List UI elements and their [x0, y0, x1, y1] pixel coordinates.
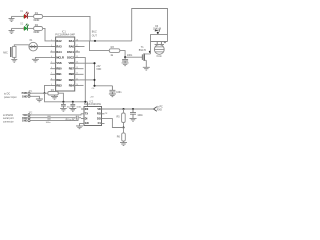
transistor T1 labels [139, 46, 147, 52]
svg-text:RB3: RB3 [56, 83, 62, 87]
wire IC1 pin4 to ground [35, 58, 50, 60]
ground GND1 (LED1) [9, 16, 15, 21]
diode D3 [155, 29, 160, 34]
wire IC1 pin12 stub [80, 73, 84, 75]
junction pin11 [93, 79, 95, 81]
svg-text:VDD: VDD [69, 61, 75, 65]
wire SV2 txd to IC2 [30, 114, 81, 115]
net label pin14 [96, 65, 101, 71]
wire SV1 power to node [30, 92, 44, 94]
svg-text:connector: connector [3, 120, 14, 123]
svg-text:VSS: VSS [56, 61, 61, 65]
capacitor C4 on gate [122, 57, 128, 63]
wire IC1 pin9 down [45, 85, 51, 93]
IC1 right pin names [67, 39, 75, 87]
wire R6 to main rail [58, 93, 63, 102]
svg-text:6: 6 [51, 67, 52, 69]
svg-text:GND: GND [22, 95, 28, 98]
svg-text:100n: 100n [127, 54, 133, 57]
svg-text:11: 11 [76, 78, 78, 80]
svg-text:GND: GND [22, 120, 28, 123]
IC2 right pins [102, 109, 105, 123]
ground GND11 (R8) [120, 143, 127, 146]
ground GND12 (C2) [130, 118, 137, 121]
wire IC1 pin14 node [80, 63, 113, 86]
svg-text:GN: GN [85, 122, 89, 125]
svg-text:3: 3 [51, 50, 52, 52]
junction R7/R8 [122, 126, 124, 128]
svg-text:RX: RX [85, 108, 89, 111]
microphone MIC1 [11, 46, 16, 57]
IC2 left pins [81, 109, 84, 123]
connector SV2 pin circles [28, 114, 30, 122]
wire IC1 pin18 right net [80, 40, 132, 42]
junction rail cap [62, 101, 64, 103]
wire C3 to C5 [51, 117, 76, 119]
connector SV2 pin names [22, 114, 28, 123]
capacitor C2 [130, 109, 136, 118]
junction rail cap2 [72, 101, 74, 103]
wire LED2 to R2 [27, 27, 33, 29]
junction drain [149, 51, 151, 53]
svg-text:RA4: RA4 [56, 50, 62, 54]
svg-text:100n: 100n [116, 92, 122, 94]
svg-text:VDD: VDD [96, 68, 101, 71]
wire SV1 gnd down [30, 96, 39, 99]
svg-text:5: 5 [51, 62, 52, 64]
svg-text:RB2: RB2 [56, 78, 62, 82]
capacitor C2b [70, 102, 75, 109]
LED D1 (red) [24, 12, 29, 19]
transistor T1 (n-mosfet) [142, 53, 150, 61]
svg-text:DO: DO [97, 117, 101, 120]
svg-text:7: 7 [51, 73, 52, 75]
svg-text:16: 16 [76, 50, 78, 52]
net flag TXD [154, 107, 157, 111]
capacitor C3 (series) [48, 116, 50, 120]
wire SV2 gnd to IC2 [30, 119, 78, 121]
svg-text:OSC1: OSC1 [67, 50, 75, 54]
IC1 right pins [75, 41, 80, 86]
diode D3 labels [153, 26, 162, 31]
svg-text:RB5: RB5 [69, 78, 75, 82]
ground GND5 (source) [143, 67, 150, 70]
wire top VCC run [132, 9, 168, 42]
svg-text:DI: DI [85, 117, 88, 120]
capacitor C6 [109, 86, 115, 94]
svg-text:330R: 330R [33, 18, 39, 22]
svg-text:RB1: RB1 [56, 72, 62, 76]
resistor R6 [48, 92, 59, 96]
connector SV1 texts [4, 93, 17, 99]
svg-text:RXD: RXD [157, 108, 162, 111]
junction out R4 [122, 108, 124, 110]
svg-text:2: 2 [51, 45, 52, 47]
wire IC1 pin17 stub [80, 46, 85, 48]
resistor R7 (vertical) [122, 113, 126, 123]
wire node down to gate line [90, 41, 110, 51]
resistor R3 [109, 46, 120, 57]
svg-text:100n: 100n [137, 114, 143, 117]
net flag texts [157, 105, 163, 111]
svg-text:MAX232CPA: MAX232CPA [84, 103, 101, 106]
svg-text:4: 4 [51, 56, 52, 58]
junction node pin18/LED1 [94, 40, 96, 42]
ground GND14 (C2b) [69, 108, 76, 111]
svg-text:RA3: RA3 [56, 44, 62, 48]
resistor R8 (vertical) [122, 133, 126, 141]
ground GND9 (C1) [60, 108, 67, 111]
wire MIC to coupling [14, 45, 29, 47]
svg-text:9: 9 [51, 84, 52, 86]
wire R3 to gate [120, 51, 142, 58]
wire SV2 row2 to C3 [30, 117, 47, 119]
svg-text:330R: 330R [33, 30, 39, 34]
svg-text:OSC2: OSC2 [67, 56, 75, 60]
resistor R1 [33, 11, 42, 22]
svg-text:MIC: MIC [3, 52, 8, 55]
svg-text:12: 12 [76, 73, 78, 75]
svg-text:8: 8 [51, 78, 52, 80]
svg-text:RO: RO [97, 113, 101, 116]
ground GND8 (SV1) [36, 99, 43, 102]
svg-text:RA2: RA2 [56, 39, 62, 43]
svg-text:18: 18 [76, 39, 78, 41]
svg-text:RA1: RA1 [69, 39, 75, 43]
wire IC1 pin11 to rail [80, 79, 95, 81]
wire buzzer top [151, 41, 168, 43]
junction pin11 corner [93, 85, 95, 87]
capacitor C1 [61, 102, 66, 109]
svg-text:1N4148: 1N4148 [153, 28, 162, 30]
svg-text:VD: VD [97, 108, 101, 111]
svg-text:1: 1 [51, 39, 52, 41]
svg-text:RB7: RB7 [69, 67, 75, 71]
net label pin18 [92, 30, 98, 37]
ground GND6 (pin4) [32, 59, 39, 62]
svg-text:F/cm: F/cm [157, 55, 162, 58]
LED D2 (green) [24, 24, 29, 31]
svg-text:13: 13 [76, 67, 78, 69]
svg-text:14: 14 [76, 62, 78, 64]
buzzer SG1 [154, 41, 166, 58]
wire node to R8 [123, 128, 125, 133]
wire coupling to IC1 pin2 [38, 46, 51, 48]
IC1 left pin names [56, 39, 64, 87]
ground GND10 (IC2) [76, 123, 83, 128]
svg-text:17: 17 [76, 45, 78, 47]
wire out to R7 [123, 109, 125, 113]
svg-text:OUT: OUT [92, 35, 98, 38]
wire main +5V rail [45, 93, 88, 102]
capacitor C5 (series) [76, 116, 78, 120]
connector SV2 texts [3, 114, 14, 123]
wire IC1 pin13 stub [80, 68, 84, 70]
wire R8 to ground [123, 141, 125, 143]
svg-text:RB4: RB4 [69, 83, 75, 87]
wire R7 to node [123, 123, 125, 128]
svg-text:10: 10 [76, 84, 78, 86]
ground GND3 (mic) [11, 57, 17, 62]
svg-text:RB6: RB6 [69, 72, 75, 76]
wire C5 to IC2 [79, 117, 81, 119]
IC2 body [84, 107, 102, 126]
connector SV1 pin circles [28, 92, 30, 97]
junction out C2 [132, 108, 134, 110]
IC1 left pins [50, 41, 55, 86]
IC2 pin names [85, 108, 89, 125]
IC1 body [56, 37, 75, 91]
wire GND1 to LED1 [12, 15, 24, 17]
svg-text:RA0: RA0 [69, 44, 75, 48]
ground GND4 (gate) [122, 63, 129, 66]
junction gate net [124, 56, 126, 58]
wire IC1 pin15 to rail [80, 58, 85, 102]
IC1 pin numbers [51, 39, 78, 86]
svg-text:100n: 100n [76, 106, 82, 108]
resistor R2 [33, 23, 42, 34]
svg-text:power input: power input [4, 96, 17, 99]
svg-text:BS170: BS170 [139, 49, 147, 52]
wire GND2 to LED2 [12, 27, 24, 29]
ground GND7 (below R6) [51, 95, 58, 99]
svg-text:15: 15 [76, 56, 78, 58]
junction pin14 [93, 62, 95, 64]
junction rail pin15 [84, 101, 86, 103]
wire source to ground [145, 60, 147, 67]
ground GND13 (C6) [109, 94, 116, 97]
wire drain rail [151, 35, 168, 54]
svg-text:+5V: +5V [90, 97, 94, 99]
connector SV1 pins [22, 92, 28, 98]
wire IC1 pin10 stub [80, 84, 84, 86]
wire IC2 pin to node [105, 119, 124, 128]
svg-text:BUZ: BUZ [92, 30, 97, 33]
svg-text:TX: TX [85, 113, 89, 116]
wire LED1 to R1 [27, 15, 33, 17]
wire node to R6 [45, 92, 48, 94]
svg-text:MCLR: MCLR [56, 56, 64, 60]
wire R1 to node, long top net [43, 16, 90, 41]
wire R2 to IC1 pin1 [43, 28, 51, 41]
svg-text:100n: 100n [46, 122, 52, 124]
ground GND2 (LED2) [9, 28, 15, 33]
coupling element X1 (circle) [29, 42, 38, 51]
svg-text:RB0: RB0 [56, 67, 62, 71]
junction pin9 node [43, 92, 45, 94]
wire IC2 out net [105, 108, 154, 110]
wire rail to IC2 [87, 102, 89, 107]
svg-text:PIC16F84A-04P: PIC16F84A-04P [55, 33, 75, 37]
